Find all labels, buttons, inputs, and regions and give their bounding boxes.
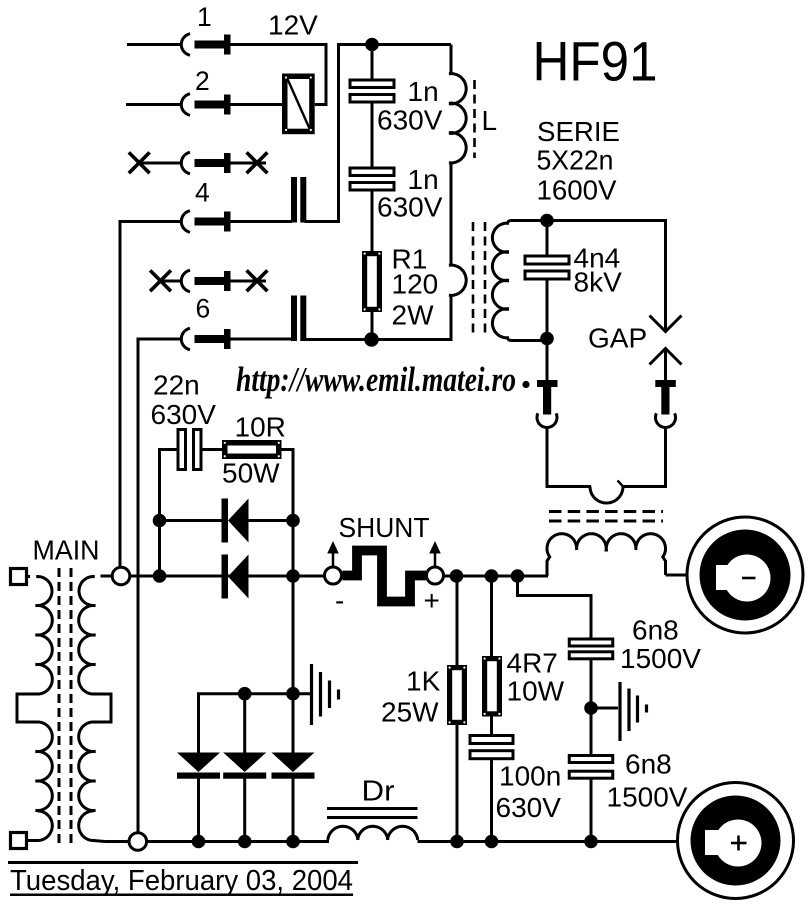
inductor Dr (328, 826, 358, 840)
drive transformer secondary (492, 221, 511, 341)
wire snubber left leg (160, 450, 180, 577)
svg-text:SERIE: SERIE (537, 116, 620, 147)
svg-text:1: 1 (197, 2, 212, 32)
capacitor 1n 630V (top) (350, 80, 394, 88)
node bus 100n (485, 835, 499, 849)
wire secondary to minus terminal (666, 574, 688, 577)
contact 2 (126, 94, 231, 116)
connector plug right (655, 380, 676, 488)
svg-text:L: L (482, 105, 498, 136)
MAIN core (dashed) (58, 568, 61, 848)
inductor L (449, 74, 466, 104)
svg-text:25W: 25W (381, 697, 439, 728)
connector circle bottom bus (129, 833, 147, 851)
capacitor 6n8 1500V top (569, 639, 613, 646)
HF transformer secondary (547, 534, 666, 576)
HF transformer core (dashed) (549, 510, 663, 513)
wire diode stack top row (199, 694, 312, 753)
svg-text:4: 4 (195, 178, 210, 208)
node 4n4 top (540, 214, 554, 228)
url trailing dot (522, 381, 529, 388)
terminal minus (687, 517, 803, 633)
terminal square top left (11, 569, 27, 585)
diode D4 (223, 694, 266, 842)
svg-text:630V: 630V (377, 105, 443, 136)
wire contact6 right (231, 338, 293, 341)
wire 6n8 to bus (590, 778, 593, 841)
X mark right row5 (247, 270, 268, 291)
wire 4R7 branch (490, 576, 493, 658)
node bus D3 (192, 835, 206, 849)
wire primary to bottom wire (372, 296, 451, 340)
wire bus left section (130, 575, 325, 578)
svg-text:100n: 100n (499, 761, 561, 792)
wire secondary bottom to node (511, 339, 547, 342)
svg-text:630V: 630V (496, 792, 562, 823)
wire 1K to bus (456, 725, 459, 842)
wire bottom bus mid (146, 840, 329, 843)
wire 6n8 branch (518, 576, 592, 640)
node bus 6n8 (584, 835, 598, 849)
wire secondary top to gap branch (511, 221, 666, 332)
connector plug left (537, 339, 558, 489)
wire contact6 to bottom tank node (305, 338, 373, 341)
svg-text:Dr: Dr (362, 776, 395, 808)
svg-text:22n: 22n (153, 370, 200, 401)
relay contact bars row4 (291, 177, 297, 223)
resistor 10R 50W (225, 443, 279, 457)
ground G2 (591, 682, 647, 741)
svg-text:1K: 1K (406, 666, 441, 697)
ground G1 (312, 664, 339, 725)
terminal plus (678, 783, 794, 899)
wire 4n4 to bottom node (546, 279, 549, 334)
resistor R1 (365, 254, 380, 310)
capacitor 22n 630V (178, 430, 186, 470)
svg-text:1500V: 1500V (620, 643, 701, 674)
wire node to C 1n (371, 45, 374, 81)
svg-text:SHUNT: SHUNT (339, 512, 430, 543)
svg-text:630V: 630V (377, 192, 443, 223)
node 4n4 bottom (540, 332, 554, 346)
capacitor 4n4 8kV (525, 256, 569, 264)
svg-text:GAP: GAP (588, 323, 647, 354)
svg-text:12V: 12V (268, 10, 318, 41)
wire top to L (450, 45, 453, 76)
arrow left (327, 541, 339, 567)
wire bus right of shunt (444, 575, 549, 578)
svg-text:1n: 1n (408, 76, 439, 107)
svg-text:4R7: 4R7 (507, 648, 558, 679)
wire 12V net: contact1 to relay (231, 45, 327, 105)
HF transformer primary single-turn loop (547, 481, 666, 504)
resistor 4R7 10W (485, 659, 500, 714)
wire 10R to right leg, down to diodes (281, 450, 293, 753)
X mark left row5 (150, 270, 171, 291)
spark gap lower electrode (650, 349, 682, 381)
wire contact4 right (231, 220, 293, 223)
shunt terminal left (325, 567, 342, 584)
wire bottom bus right (418, 840, 679, 843)
drive transformer primary single turn (449, 265, 466, 295)
capacitor 100n 630V (470, 736, 513, 744)
wire L to primary turn (450, 163, 453, 267)
relay contact bars row6 (291, 296, 297, 342)
node stack right (286, 687, 300, 701)
node bus 1K (450, 835, 464, 849)
svg-text:50W: 50W (222, 458, 280, 489)
MAIN secondary winding (79, 576, 113, 842)
svg-text:630V: 630V (151, 399, 217, 430)
wire between 6n8 caps (590, 659, 593, 756)
wire to 4n4 (546, 221, 549, 258)
node bus D5 (286, 835, 300, 849)
svg-text:1500V: 1500V (607, 782, 688, 813)
shunt terminal right (427, 567, 444, 584)
wire 4R7 to 100n (490, 717, 493, 737)
svg-text:MAIN: MAIN (33, 535, 100, 566)
contact 5 (crossed out) (162, 270, 266, 292)
node D1 left (153, 514, 167, 528)
arrow right (429, 541, 441, 567)
wire 1K branch (456, 576, 459, 667)
diode D3 (177, 753, 220, 842)
node bottom tank (364, 332, 378, 346)
MAIN primary winding (17, 577, 52, 841)
node D2 right (286, 569, 300, 583)
svg-text:10R: 10R (235, 412, 286, 443)
relay coil 12V (285, 76, 312, 131)
wire cap to 10R (201, 448, 223, 451)
terminal square bottom left (11, 833, 27, 849)
diode D5 (272, 753, 315, 842)
svg-text:1n: 1n (408, 164, 439, 195)
node ground G2 (584, 701, 598, 715)
diode D2 (222, 555, 249, 599)
svg-text:HF91: HF91 (533, 30, 658, 93)
wire 100n to bus (490, 759, 493, 842)
core line of L (dashed) (473, 80, 476, 158)
wire contact4 to top net (305, 45, 452, 222)
wire R1 to bottom node (371, 312, 374, 335)
svg-text:6: 6 (196, 294, 211, 324)
X mark left row3 (129, 152, 150, 173)
resistor 1K 25W (450, 668, 465, 723)
contact 1 (127, 34, 231, 56)
svg-text:2: 2 (195, 66, 210, 96)
node top tank (365, 38, 379, 52)
svg-text:+: + (424, 585, 440, 616)
svg-text:8kV: 8kV (574, 267, 623, 298)
svg-text:http://www.emil.matei.ro: http://www.emil.matei.ro (236, 360, 516, 399)
svg-text:Tuesday, February 03, 2004: Tuesday, February 03, 2004 (10, 865, 353, 897)
svg-text:1600V: 1600V (537, 175, 617, 206)
Dr core lines (327, 807, 418, 810)
svg-text:120: 120 (392, 269, 439, 300)
svg-text:5X22n: 5X22n (537, 145, 614, 176)
svg-text:2W: 2W (392, 300, 435, 331)
contact 4 (120, 211, 231, 567)
contact 6 (138, 328, 231, 833)
shunt bar (343, 551, 427, 602)
diode D1 (160, 499, 293, 543)
contact 3 (crossed out) (141, 152, 266, 174)
svg-text:10W: 10W (507, 676, 565, 707)
wire between caps (371, 102, 374, 168)
connector circle MAIN out top (112, 567, 130, 585)
X mark right row3 (247, 152, 268, 173)
footer underline (10, 894, 353, 897)
wire bottom bus left (105, 840, 130, 843)
svg-text:-: - (335, 585, 344, 616)
node 1K branch (450, 569, 464, 583)
node stack mid (238, 687, 252, 701)
node 6n8 branch (511, 569, 525, 583)
footer rule (8, 861, 358, 864)
node D2 left (153, 569, 167, 583)
capacitor 6n8 1500V bottom (569, 756, 613, 763)
wire contact2 to relay coil (231, 103, 284, 106)
node bus D4 (238, 835, 252, 849)
svg-text:6n8: 6n8 (625, 749, 672, 780)
capacitor 1n 630V (second) (350, 168, 394, 176)
node D1 right (286, 514, 300, 528)
spark gap upper electrode (650, 316, 682, 332)
node 4R7 branch (485, 569, 499, 583)
drive transformer core (dashed) (472, 222, 475, 338)
svg-text:6n8: 6n8 (632, 615, 679, 646)
wire cap to R1 (371, 190, 374, 253)
